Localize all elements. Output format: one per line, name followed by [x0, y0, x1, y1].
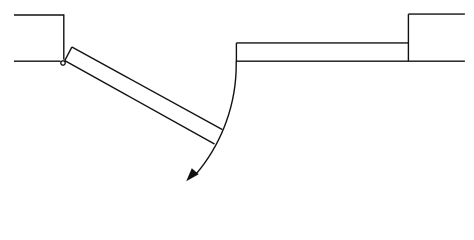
arrowhead — [186, 168, 199, 181]
left wall bottom line — [14, 60, 61, 62]
right wall top line — [408, 13, 465, 15]
right wall left jamb vertical — [235, 43, 237, 61]
door leaf bottom edge — [65, 61, 215, 144]
left wall top line — [14, 14, 64, 16]
hinge circle — [61, 61, 65, 65]
right wall step vertical — [407, 14, 409, 61]
door leaf top edge — [72, 47, 222, 130]
right wall strip top line — [236, 42, 408, 44]
door leaf hinge-end cap — [65, 47, 72, 61]
swing arc — [196, 61, 236, 174]
right wall bottom line — [236, 60, 465, 62]
left wall jamb vertical — [63, 14, 65, 59]
